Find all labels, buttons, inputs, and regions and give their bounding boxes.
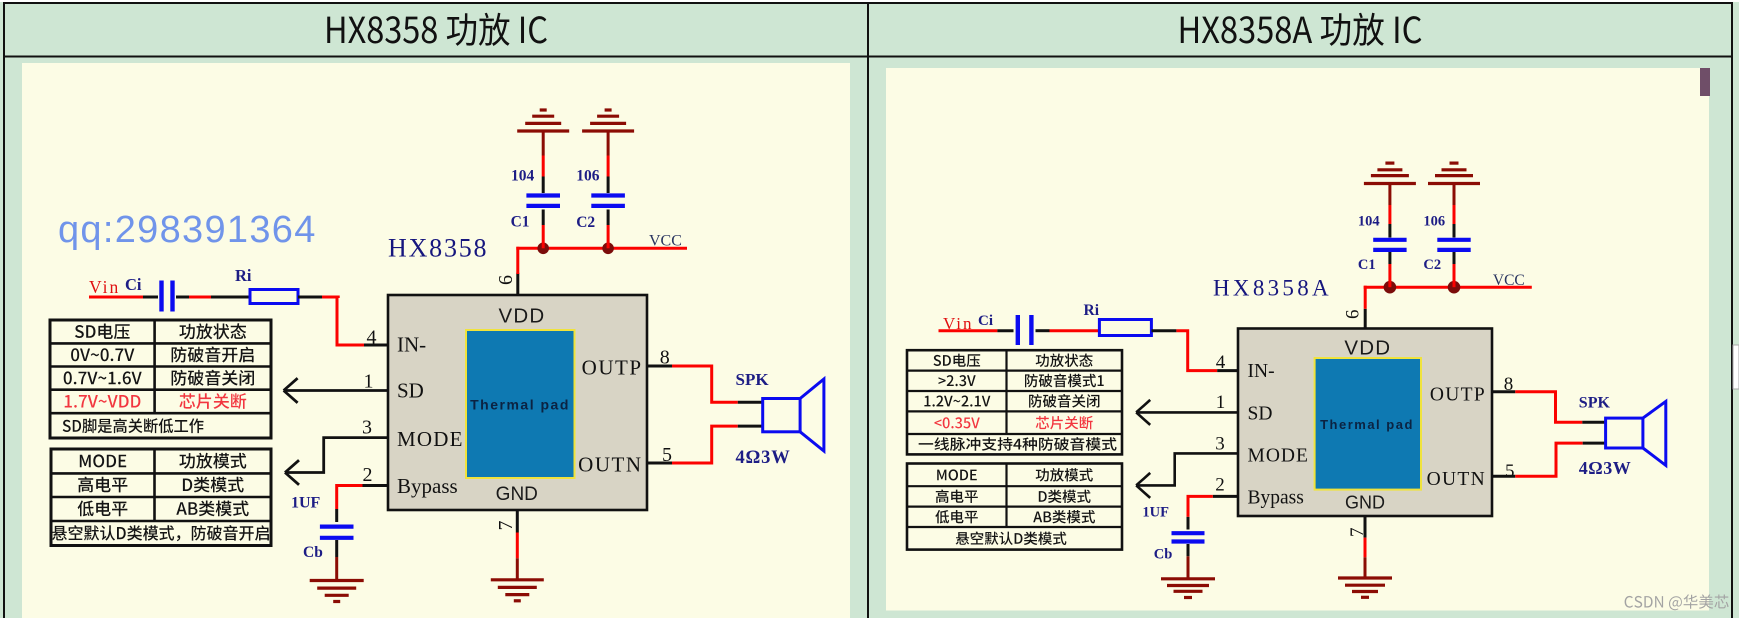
resistor Ri <box>250 290 298 304</box>
wire dark red to ground <box>335 557 338 581</box>
table SD states outer box <box>50 320 271 438</box>
svg-text:Ri: Ri <box>1084 302 1100 319</box>
wire OUTP black stub (right) <box>1492 390 1515 393</box>
table SD row divider 1 (right) <box>907 370 1122 372</box>
svg-text:MODE: MODE <box>1248 445 1309 466</box>
wire C2 red below (right) <box>1453 264 1456 287</box>
wire OUTN black into speaker <box>738 425 763 428</box>
table SD row divider 2 <box>50 365 271 368</box>
ground above C1 (inverted) <box>517 110 569 131</box>
wire black above Cb (right) <box>1187 517 1190 530</box>
table row 一线脉冲支持4种防破音模式 <box>919 437 1117 451</box>
title row bottom border <box>4 56 1732 58</box>
wire C1 black above plate (right) <box>1388 224 1391 238</box>
table cell 防破音关闭 <box>172 370 254 386</box>
table SD column divider <box>153 320 156 413</box>
table cell 防破音关闭 (right) <box>1029 394 1099 408</box>
wire black to Ci (right) <box>997 329 1013 332</box>
table cell D类模式 (right) <box>1039 490 1091 503</box>
wire C2 black below plate <box>607 210 610 226</box>
table MODE outer box <box>51 449 271 546</box>
svg-text:2: 2 <box>363 464 373 486</box>
wire C2 red above (right) <box>1453 205 1456 224</box>
table cell 低电平 <box>78 501 128 517</box>
junction node C1/VCC <box>537 243 549 255</box>
svg-text:4Ω3W: 4Ω3W <box>736 448 791 468</box>
table cell 0V~0.7V <box>71 348 134 361</box>
wire OUTN black stub (right) <box>1492 475 1515 478</box>
table cell SD电压 <box>75 324 130 340</box>
capacitor Ci (right) <box>1018 315 1032 345</box>
svg-text:Bypass: Bypass <box>1248 487 1304 508</box>
wire black segment after Ri <box>298 296 322 299</box>
wire black after Ci (right) <box>1036 329 1050 332</box>
junction node C2/VCC (right) <box>1448 281 1461 294</box>
table cell AB类模式 <box>176 501 248 517</box>
table MODE row divider 2 <box>51 496 271 499</box>
left title: HX8358 功放 IC <box>327 13 547 46</box>
svg-text:IN-: IN- <box>397 333 426 357</box>
wire SD pin 1 <box>284 389 388 392</box>
table cell 功放模式 <box>179 453 246 469</box>
svg-text:4: 4 <box>367 326 377 348</box>
wire black below Cb <box>335 540 338 557</box>
wire C1 red above <box>542 156 545 177</box>
wire Bypass red to corner <box>337 486 363 510</box>
center column divider <box>867 2 869 618</box>
wire red before Ri (right) <box>1050 329 1100 332</box>
table MODE outer box (right) <box>907 464 1122 550</box>
table SD row divider 3 <box>50 388 271 391</box>
wire C1 red below (right) <box>1388 264 1391 287</box>
wire black stub pin 4 (right) <box>1217 369 1238 372</box>
wire C1 black above plate <box>542 177 545 194</box>
table cell 1.7V~VDD (red) <box>65 395 141 408</box>
table SD states outer box (right) <box>907 350 1122 454</box>
wire C2 black above plate <box>607 177 610 194</box>
arrow into SD table (right) <box>1136 400 1150 425</box>
wire Vin red segment (right) <box>939 329 998 332</box>
capacitor C1 (right) <box>1373 240 1406 250</box>
svg-text:7: 7 <box>495 521 517 531</box>
speaker SPK body (right) <box>1606 418 1643 448</box>
table row 悬空默认D类模式，防破音开启 <box>52 525 269 541</box>
wire black above Cb <box>335 509 338 522</box>
svg-text:qq:298391364: qq:298391364 <box>58 209 317 251</box>
speaker SPK horn <box>800 379 824 451</box>
table MODE column divider (right) <box>1005 464 1007 528</box>
table cell <0.35V (red) <box>934 417 979 428</box>
table MODE row divider 1 (right) <box>907 485 1122 487</box>
svg-text:C2: C2 <box>576 214 595 231</box>
left panel yellow area <box>22 63 850 618</box>
ground below pin 7 (right) <box>1338 578 1392 597</box>
table MODE column divider <box>153 449 156 521</box>
junction node C2/VCC <box>602 243 614 255</box>
wire Vin red segment <box>89 296 143 299</box>
table cell 芯片关断 (red) <box>179 393 246 409</box>
wire C2 red above <box>607 156 610 177</box>
svg-text:OUTN: OUTN <box>578 453 642 477</box>
svg-text:Ci: Ci <box>125 275 142 294</box>
table SD row divider 3 (right) <box>907 410 1122 412</box>
wire Bypass black stub (right) <box>1213 495 1238 498</box>
svg-text:HX8358: HX8358 <box>388 233 488 262</box>
capacitor C2 <box>591 196 625 206</box>
svg-text:1: 1 <box>364 371 374 393</box>
wire OUTP red path <box>672 366 738 402</box>
right panel purple corner tab <box>1700 68 1710 96</box>
wire C2 dark red to ground (right) <box>1453 184 1456 206</box>
svg-text:1UF: 1UF <box>1142 505 1169 521</box>
svg-text:104: 104 <box>511 167 535 184</box>
wire OUTN black into speaker (right) <box>1583 442 1606 445</box>
wire C1 dark red to ground <box>542 131 545 156</box>
table cell MODE (right) <box>937 469 977 480</box>
table cell 芯片关断 (right red) <box>1036 416 1093 430</box>
table cell 低电平 (right) <box>935 510 978 524</box>
svg-text:Ri: Ri <box>235 266 252 285</box>
wire OUTP red path (right) <box>1515 392 1582 423</box>
svg-text:VCC: VCC <box>649 233 682 250</box>
capacitor Cb (right) <box>1172 533 1205 541</box>
wire OUTP black stub <box>647 365 672 368</box>
svg-text:Vin: Vin <box>89 277 120 297</box>
wire OUTN black stub <box>647 462 672 465</box>
ground below Cb <box>310 581 364 602</box>
svg-text:3: 3 <box>1215 434 1225 455</box>
wire pin7 black stub (right) <box>1364 516 1367 538</box>
svg-text:5: 5 <box>1505 461 1515 482</box>
wire pin7 red segment <box>516 533 519 559</box>
wire pin6 black stub <box>516 273 519 295</box>
table cell AB类模式 (right) <box>1033 510 1095 523</box>
wire pin7 red segment (right) <box>1364 538 1367 558</box>
wire C2 black below plate (right) <box>1453 252 1456 264</box>
arrow into MODE table (right) <box>1136 473 1150 498</box>
wire OUTN red path <box>672 426 738 463</box>
capacitor Cb <box>320 527 354 538</box>
VCC rail red wire (right) <box>1364 286 1532 289</box>
wire black segment to Ri <box>211 296 250 299</box>
svg-text:6: 6 <box>1343 310 1364 320</box>
svg-text:Thermal pad: Thermal pad <box>1320 417 1414 432</box>
capacitor C2 (right) <box>1437 240 1470 250</box>
top white strip <box>0 0 1739 2</box>
svg-text:6: 6 <box>495 275 517 285</box>
table MODE row divider 3 <box>51 520 271 523</box>
svg-text:HX8358A: HX8358A <box>1213 276 1332 301</box>
svg-text:2: 2 <box>1215 474 1225 495</box>
wire pin7 black stub <box>516 510 519 533</box>
wire OUTP black into speaker (right) <box>1582 421 1605 424</box>
svg-text:106: 106 <box>576 167 600 184</box>
table cell 防破音开启 <box>172 347 254 363</box>
wire Vin-Ci black segment <box>143 296 158 299</box>
wire C2 red below <box>607 225 610 248</box>
thermal pad <box>466 330 575 478</box>
svg-text:C2: C2 <box>1423 257 1441 273</box>
svg-text:4: 4 <box>1216 352 1226 373</box>
outer border right <box>1731 2 1733 618</box>
VCC rail red wire <box>516 247 687 250</box>
table SD row divider 4 <box>50 412 271 415</box>
ground above C2 (inverted) <box>582 110 634 131</box>
svg-text:Cb: Cb <box>1154 547 1173 563</box>
svg-text:OUTP: OUTP <box>1430 385 1486 406</box>
CSDN watermark <box>1625 594 1729 610</box>
op-amp IC HX8358A body <box>1238 329 1492 517</box>
ground below pin 7 <box>491 580 544 601</box>
svg-text:VCC: VCC <box>1493 272 1525 289</box>
svg-text:SPK: SPK <box>736 370 770 389</box>
table cell 功放模式 (right) <box>1036 468 1093 482</box>
table cell 防破音模式1 <box>1025 374 1104 388</box>
wire dark red to ground (right) <box>1187 556 1190 579</box>
wire pin7 dark red segment <box>516 558 519 580</box>
speaker SPK horn (right) <box>1643 401 1666 465</box>
table cell 高电平 (right) <box>936 490 978 504</box>
junction node C1/VCC (right) <box>1384 281 1397 294</box>
table SD row divider 4 (right) <box>907 433 1122 435</box>
svg-text:OUTN: OUTN <box>1427 469 1486 490</box>
wire red from Ri to pin 4 corner <box>322 297 338 298</box>
table row 悬空默认D类模式 (right) <box>956 531 1067 545</box>
svg-text:SD: SD <box>397 379 424 403</box>
wire black after Ri (right) <box>1152 329 1177 332</box>
op-amp IC HX8358 body <box>388 295 647 510</box>
svg-text:7: 7 <box>1347 528 1368 538</box>
ground above C1 (right, inverted) <box>1364 163 1416 183</box>
svg-text:OUTP: OUTP <box>582 356 643 380</box>
svg-text:106: 106 <box>1423 213 1445 229</box>
wire C2 black above plate (right) <box>1453 224 1456 238</box>
table SD row divider 2 (right) <box>907 390 1122 392</box>
wire OUTN red path (right) <box>1515 443 1582 476</box>
wire OUTP black into speaker <box>738 401 763 404</box>
svg-text:C1: C1 <box>1358 257 1376 273</box>
wire C1 black below plate (right) <box>1388 252 1391 264</box>
wire C1 red below <box>542 225 545 248</box>
speaker SPK body <box>763 399 800 432</box>
svg-text:IN-: IN- <box>1248 361 1275 382</box>
svg-text:VDD: VDD <box>1344 337 1391 360</box>
svg-text:3: 3 <box>362 417 372 439</box>
right title: HX8358A 功放 IC <box>1181 13 1422 46</box>
table SD row divider 1 <box>50 342 271 345</box>
wire Bypass red corner (right) <box>1188 496 1213 517</box>
wire red segment before Ri <box>189 296 211 299</box>
svg-text:1: 1 <box>1216 392 1226 413</box>
table cell 功放状态 <box>179 323 246 339</box>
wire C1 dark red to ground (right) <box>1388 184 1391 206</box>
thermal pad (right) <box>1315 358 1421 490</box>
outer border left <box>3 2 5 618</box>
svg-text:Cb: Cb <box>303 544 323 561</box>
wire Ci-out black segment <box>176 296 189 299</box>
wire red vertical down to pin4 level <box>336 296 339 346</box>
svg-text:C1: C1 <box>511 214 530 231</box>
table cell 功放状态 (right) <box>1036 354 1093 368</box>
right edge scrollbar thumb <box>1733 345 1739 389</box>
svg-text:Bypass: Bypass <box>397 474 458 498</box>
wire pin7 dark red (right) <box>1364 557 1367 578</box>
arrow into SD table <box>284 378 298 403</box>
wire Bypass black stub <box>363 484 389 487</box>
wire MODE pin 3 path (right) <box>1136 453 1238 485</box>
svg-text:SPK: SPK <box>1579 395 1611 412</box>
capacitor Ci <box>162 281 173 312</box>
wire black below Cb (right) <box>1187 544 1190 556</box>
svg-text:Thermal pad: Thermal pad <box>470 397 570 413</box>
wire pin6 red segment (right) <box>1364 286 1367 309</box>
table cell SD电压 (right) <box>934 354 981 367</box>
svg-text:104: 104 <box>1358 213 1380 229</box>
wire pin6 black stub (right) <box>1364 309 1367 329</box>
table MODE row divider 3 (right) <box>907 526 1122 528</box>
outer border top <box>4 2 1732 4</box>
table cell 高电平 <box>78 477 127 493</box>
table cell 0.7V~1.6V <box>64 371 142 384</box>
ground above C2 (right, inverted) <box>1428 163 1480 183</box>
svg-text:4Ω3W: 4Ω3W <box>1579 458 1631 478</box>
svg-text:1UF: 1UF <box>291 495 321 512</box>
wire C1 black below plate <box>542 210 545 226</box>
arrow into MODE table <box>285 460 299 485</box>
table cell >2.3V <box>939 375 976 386</box>
wire red horizontal to pin 4 <box>336 344 365 347</box>
table cell D类模式 <box>183 477 244 493</box>
svg-text:GND: GND <box>1345 493 1385 513</box>
table row SD脚是高关断低工作 <box>63 418 204 433</box>
resistor Ri (right) <box>1099 320 1151 336</box>
svg-text:MODE: MODE <box>397 427 464 451</box>
table SD column divider (right) <box>1005 350 1007 434</box>
svg-text:Ci: Ci <box>978 313 993 329</box>
svg-text:SD: SD <box>1248 404 1273 425</box>
wire SD pin 1 (right) <box>1136 411 1238 414</box>
wire C1 red above (right) <box>1388 205 1391 224</box>
wire C2 dark red to ground <box>607 131 610 156</box>
ground below Cb (right) <box>1161 579 1215 598</box>
wire MODE pin 3 path <box>285 438 388 473</box>
table cell MODE <box>80 454 126 467</box>
svg-text:VDD: VDD <box>499 305 546 328</box>
wire pin6 red segment <box>516 247 519 274</box>
capacitor C1 <box>526 196 560 206</box>
wire black stub into pin 4 (IN-) <box>364 344 388 347</box>
table MODE row divider 1 <box>51 472 271 475</box>
table MODE row divider 2 (right) <box>907 506 1122 508</box>
svg-text:GND: GND <box>496 484 538 505</box>
right panel yellow area <box>886 68 1709 611</box>
table cell 1.2V~2.1V <box>924 396 990 407</box>
wire red corner to pin4 (right) <box>1176 331 1217 371</box>
